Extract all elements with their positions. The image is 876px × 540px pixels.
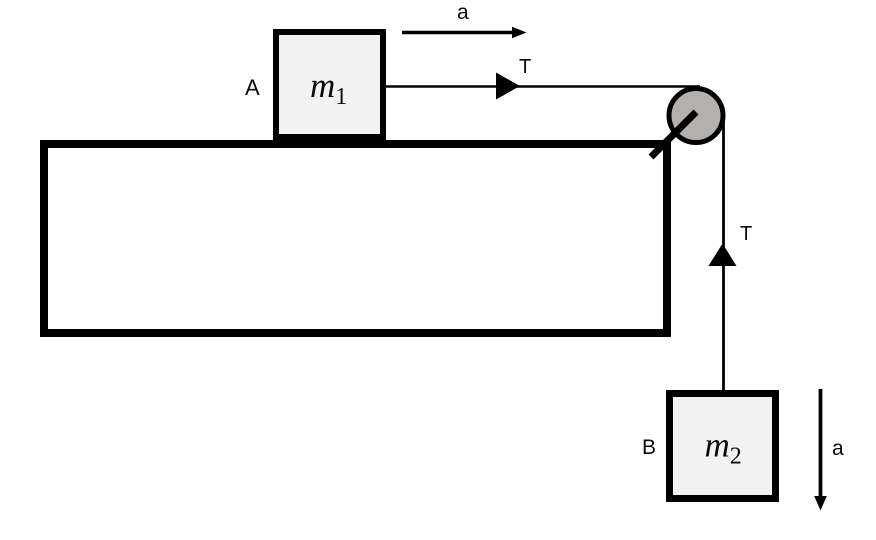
tension arrowhead T on vertical rope (upward): [709, 244, 737, 267]
svg-text:A: A: [245, 75, 260, 100]
table (incline surface block): [44, 144, 667, 333]
svg-text:B: B: [642, 436, 656, 459]
block m1: [276, 32, 383, 137]
svg-text:a: a: [457, 1, 469, 24]
svg-text:a: a: [832, 437, 844, 460]
acceleration arrow a (right side, downward): [819, 389, 823, 498]
acceleration arrow a (top, rightward): [402, 31, 513, 34]
svg-text:T: T: [740, 223, 752, 245]
pulley mount strut: [651, 112, 696, 157]
svg-text:T: T: [519, 56, 531, 78]
wire: vertical rope from pulley to m2: [722, 110, 725, 391]
pulley: [669, 89, 723, 143]
wire: horizontal rope from m1 to pulley: [384, 85, 700, 88]
tension arrowhead T on horizontal rope: [496, 73, 520, 100]
block m2: [670, 394, 776, 499]
